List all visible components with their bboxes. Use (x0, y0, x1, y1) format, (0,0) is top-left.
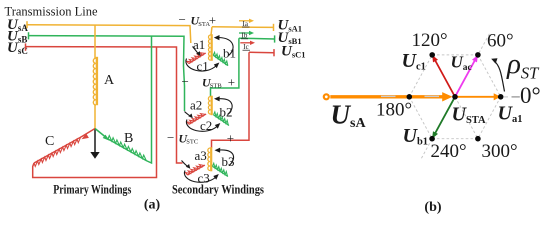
svg-text:A: A (104, 73, 115, 88)
svg-text:Primary Windings: Primary Windings (53, 181, 131, 196)
svg-text:a3: a3 (195, 148, 207, 163)
arrow minus-wire to c2 (185, 112, 193, 119)
current arrow Ib (239, 31, 254, 40)
svg-text:−: − (167, 130, 174, 145)
coil b2 (green diagonal) (213, 112, 231, 126)
arrow b1 to a1 top (214, 35, 233, 56)
svg-text:+: + (227, 130, 234, 145)
svg-text:60°: 60° (487, 31, 514, 52)
svg-text:Transmission Line: Transmission Line (5, 5, 98, 19)
wire bus B (phase B, green) (29, 32, 185, 111)
wire bus C (phase C, red) (26, 43, 183, 163)
wire UsA1 stub (yellow) (211, 24, 274, 35)
phasor Uc1 (red, to 120 deg) (432, 55, 455, 97)
svg-text:(a): (a) (144, 198, 161, 213)
phasor Uac (magenta, to 60 deg) (455, 55, 478, 97)
arrow minus-wire to c3 (182, 161, 191, 169)
coil a1 (yellow) (209, 34, 212, 61)
coil b3 (green diagonal) (212, 163, 230, 176)
current arrowhead on C lead (82, 134, 89, 140)
coil c1 (red diagonal) (187, 50, 206, 64)
dashed gray overlay on 180-center axis (381, 95, 396, 97)
arrow a1 to c1 (193, 47, 201, 57)
svg-text:(b): (b) (424, 200, 441, 215)
arrow b3 to a3 top (215, 148, 234, 166)
svg-text:+: + (228, 74, 235, 89)
diagonal 0-180 extension beyond 0 (512, 96, 520, 98)
winding B primary (green) wire junction to coil (95, 129, 108, 140)
current arrow Ia (239, 19, 254, 28)
rho_ST arc arrow (491, 58, 504, 91)
phasor Ua1 (orange) (455, 93, 501, 100)
current arrowhead on B lead (103, 135, 110, 141)
svg-text:−: − (179, 12, 186, 27)
wire bus A (phase A, yellow) (27, 21, 191, 43)
coil c2 (red diagonal) (187, 111, 206, 124)
coil B primary (green diagonal) (107, 136, 148, 161)
arrow b2 to a2 top (214, 96, 232, 114)
phasor UsA (thick orange) (324, 92, 453, 101)
arrow c1 to b1 bottom (186, 59, 219, 72)
phasor Ub1 (dark green, to 240 deg) (432, 97, 455, 139)
coil a3 (yellow) (208, 147, 211, 171)
hexagon dashed edges (409, 34, 500, 159)
svg-text:B: B (124, 131, 133, 146)
coil C primary (red diagonal) (33, 137, 82, 167)
current arrow Ic (240, 41, 255, 51)
svg-text:−: − (182, 74, 189, 89)
arrow c2 to b2 bottom (186, 120, 220, 132)
svg-text:Ib: Ib (242, 32, 248, 40)
svg-text:120°: 120° (412, 30, 448, 51)
svg-text:STC: STC (186, 139, 198, 146)
svg-text:STB: STB (210, 83, 223, 90)
svg-text:b1: b1 (223, 46, 236, 61)
winding C primary (red) wire junction to coil (81, 129, 95, 138)
svg-text:300°: 300° (482, 141, 518, 162)
coil b1 (green diagonal) (213, 52, 230, 65)
label -USTA+ (179, 12, 217, 28)
ground arrow at neutral (90, 129, 99, 159)
svg-text:C: C (45, 134, 54, 149)
svg-text:180°: 180° (376, 100, 412, 121)
wire coil C to bus C return loop (33, 47, 157, 178)
svg-text:a2: a2 (190, 97, 202, 112)
wire phase A drop to primary coil A (94, 25, 96, 58)
coil a2 (yellow) (208, 96, 211, 116)
wire coil B to bus B riser (146, 36, 152, 163)
wire UsB1 stub (green) + group2 plus feeder (211, 35, 275, 96)
coil A primary (yellow) (93, 57, 97, 105)
coil c3 (red diagonal) (185, 162, 204, 175)
wire coil A bottom to neutral junction (94, 105, 96, 129)
svg-text:Ia: Ia (243, 20, 249, 28)
arrow c3 to b3 bottom (184, 171, 218, 183)
svg-text:0°: 0° (520, 83, 541, 108)
wire UsC1 stub (red) + group3 plus feeder (212, 49, 275, 148)
svg-text:+: + (209, 13, 216, 28)
label -USTC+ (167, 130, 234, 146)
label -USTB+ (182, 74, 236, 90)
svg-text:Ic: Ic (243, 43, 248, 51)
svg-text:Secondary Windings: Secondary Windings (172, 181, 264, 196)
svg-text:240°: 240° (431, 141, 467, 162)
node dots: center and six vertices (407, 52, 504, 141)
